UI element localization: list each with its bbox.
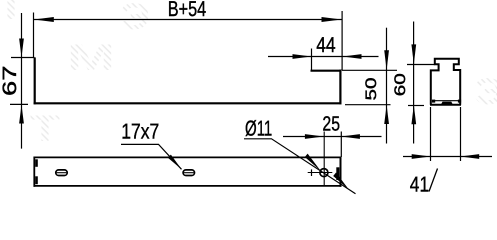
slot 2 (183, 170, 194, 176)
profile center bump (441, 102, 453, 105)
svg-text:Э: Э (120, 0, 150, 37)
small cross tick on centerline (311, 169, 313, 176)
extension line profile bottom left (60 ref) (408, 105, 424, 107)
hole h centerline (308, 172, 333, 174)
dim line B+54 (34, 19, 342, 21)
slot 1 (56, 170, 67, 176)
arrow 41 left (412, 154, 431, 159)
arrow 25 left (305, 134, 324, 139)
svg-text:44: 44 (316, 33, 336, 57)
plate top edge (34, 156, 342, 158)
svg-text:B+54: B+54 (168, 0, 206, 21)
extension line 41 right (460, 107, 462, 161)
arrow D11 at hole (305, 154, 321, 171)
svg-text:Ø11: Ø11 (245, 116, 272, 140)
arrow 17x7 (168, 155, 182, 170)
leader 17x7 (121, 144, 182, 169)
svg-text:М: М (67, 37, 115, 78)
dim line 50 (386, 28, 388, 144)
profile left foot (432, 100, 435, 103)
label 50 (363, 78, 380, 101)
svg-text:67: 67 (0, 66, 21, 96)
extension line hook top right (50 ref) (342, 69, 397, 71)
arrow 60 top (411, 44, 416, 64)
dim line 60 (413, 22, 415, 144)
arrow 50 top (384, 50, 389, 70)
hook top edge (311, 70, 342, 72)
svg-text:17x7: 17x7 (121, 120, 159, 144)
extension line 44 left (311, 49, 313, 71)
bracket bottom edge (side view) (34, 102, 342, 104)
svg-text:41: 41 (410, 172, 429, 195)
plate left tab bottom (35, 176, 38, 184)
arrow B+54 right (322, 17, 342, 22)
plate left tab top (35, 159, 38, 167)
arrow D11 at corner (333, 173, 349, 190)
profile inner bottom line (433, 100, 460, 102)
svg-text:25: 25 (322, 112, 340, 135)
slot 1 mid line (57, 172, 67, 174)
plate left edge (33, 157, 35, 187)
extension line 25 right (340, 132, 342, 158)
label 60 (392, 73, 409, 96)
leader D11 (244, 139, 356, 194)
dim line 41 (403, 156, 492, 158)
svg-text:Т: Т (30, 108, 61, 149)
profile outline (431, 59, 460, 105)
arrow 44 right (343, 54, 362, 59)
arrow 41 right (460, 154, 479, 159)
slot 2 mid line (184, 172, 194, 174)
extension line profile lip left (60 ref) (407, 64, 435, 66)
plate bottom edge (34, 185, 342, 187)
profile bottom thick line (430, 104, 461, 106)
extension line left B+54 (33, 13, 35, 58)
arrow 44 left (293, 54, 312, 59)
arrow 67 top (19, 39, 24, 58)
extension line 41 left (430, 107, 432, 161)
svg-text:Т: Т (0, 0, 27, 27)
bracket left flange (side view) (34, 57, 36, 104)
extension line right B+54 / 44 (341, 11, 343, 70)
label 67 (0, 66, 21, 96)
profile right foot (458, 100, 461, 103)
extension line bracket bottom right (50/60 ref) (345, 104, 391, 106)
arrow 25 right (341, 134, 360, 139)
extension line 67 bottom (10, 103, 28, 105)
hole v centerline / 25 ext left (323, 132, 325, 186)
extension line 67 top (11, 57, 35, 59)
dim line 44 (268, 56, 379, 58)
hook right edge (339, 70, 341, 105)
plate right tab (336, 167, 339, 180)
arrow 67 bottom (19, 105, 24, 124)
dim line 25 (283, 136, 382, 138)
plate right edge (340, 157, 342, 187)
label 41 leader stroke (429, 169, 438, 192)
hole circle (320, 169, 328, 177)
arrow B+54 left (34, 17, 54, 22)
arrow 50 bottom (384, 105, 389, 124)
svg-text:Э: Э (474, 71, 497, 112)
svg-text:50: 50 (363, 78, 380, 101)
svg-text:60: 60 (392, 73, 409, 96)
arrow 60 bottom (411, 105, 416, 124)
dim line 67 (21, 13, 23, 149)
